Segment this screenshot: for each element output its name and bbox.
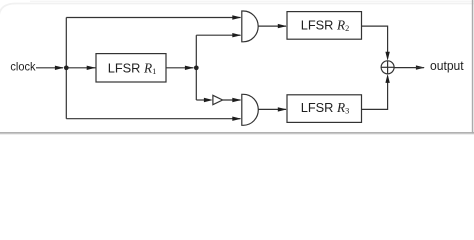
XOR gate: [381, 61, 394, 74]
svg-text:output: output: [430, 59, 464, 73]
wire left vertical clock rail: [65, 18, 67, 119]
node J1 junction dot: [64, 65, 69, 70]
arrowhead into node J2: [185, 66, 194, 70]
wire clock input: [36, 67, 63, 69]
LFSR R2 block: [287, 12, 362, 40]
arrowhead into AND G1 top input: [232, 15, 241, 19]
svg-text:LFSR R1: LFSR R1: [108, 60, 157, 76]
arrowhead into AND G2 upper input: [232, 98, 241, 102]
wire XOR to output: [394, 67, 424, 69]
svg-text:LFSR R3: LFSR R3: [301, 100, 350, 116]
wire J2 to inverter input: [196, 99, 206, 101]
wire J2 to AND gate G1 lower input: [196, 34, 240, 36]
node J2 junction dot: [194, 65, 199, 70]
arrowhead into XOR from bottom: [385, 74, 389, 83]
wire inverter output to AND gate G2: [223, 99, 241, 101]
arrowhead into LFSR R3: [278, 107, 287, 111]
LFSR R3 block: [287, 95, 362, 123]
arrowhead into node J1: [55, 66, 64, 70]
LFSR R1 block: [96, 54, 166, 82]
wire middle vertical rail at J2: [195, 35, 197, 100]
arrowhead to output: [416, 65, 425, 69]
wire bottom clock rail to AND gate G2: [66, 118, 240, 120]
arrowhead into inverter: [204, 98, 213, 102]
wire top clock rail to AND gate G1: [66, 17, 240, 19]
arrowhead into XOR from top: [385, 52, 389, 61]
svg-text:LFSR R2: LFSR R2: [301, 17, 350, 33]
arrowhead into LFSR R2: [278, 24, 287, 28]
AND gate G2 (bottom): [242, 94, 259, 125]
wire LFSR R1 output to node J2: [166, 67, 194, 69]
arrowhead into AND G1 lower input: [232, 33, 241, 37]
wire AND G1 output to LFSR R2: [258, 25, 286, 27]
wire LFSR R3 output to XOR bottom: [362, 82, 388, 109]
arrowhead into AND G2 bottom input: [232, 117, 241, 121]
wire AND G2 output to LFSR R3: [258, 108, 286, 110]
arrowhead into LFSR R1: [87, 66, 96, 70]
inverter (buffer triangle): [213, 95, 223, 104]
wire LFSR R2 output to XOR top: [362, 26, 388, 53]
wire node J1 to LFSR R1 input: [66, 67, 95, 69]
svg-text:clock: clock: [10, 61, 35, 73]
AND gate G1 (top): [242, 11, 258, 42]
